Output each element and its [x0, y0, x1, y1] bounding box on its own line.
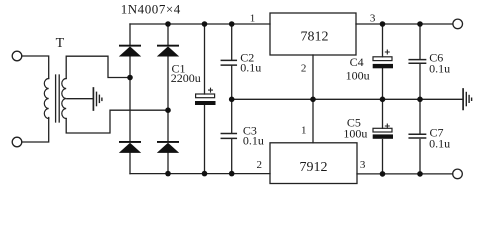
svg-text:1: 1: [250, 12, 256, 24]
svg-text:0.1u: 0.1u: [240, 60, 261, 74]
svg-text:2: 2: [257, 159, 263, 171]
svg-text:7812: 7812: [301, 30, 329, 45]
svg-text:0.1u: 0.1u: [429, 61, 450, 75]
svg-text:0.1u: 0.1u: [243, 134, 264, 148]
svg-text:T: T: [56, 36, 65, 51]
svg-text:2: 2: [301, 63, 307, 75]
svg-text:2200u: 2200u: [171, 71, 201, 85]
svg-text:0.1u: 0.1u: [429, 137, 450, 151]
svg-text:7912: 7912: [300, 160, 328, 175]
svg-text:100u: 100u: [343, 127, 367, 141]
svg-text:100u: 100u: [346, 68, 370, 82]
svg-text:1N4007×4: 1N4007×4: [121, 1, 181, 16]
svg-text:3: 3: [360, 159, 366, 171]
svg-text:1: 1: [301, 124, 307, 136]
svg-text:C4: C4: [350, 55, 364, 69]
svg-text:3: 3: [370, 12, 376, 24]
